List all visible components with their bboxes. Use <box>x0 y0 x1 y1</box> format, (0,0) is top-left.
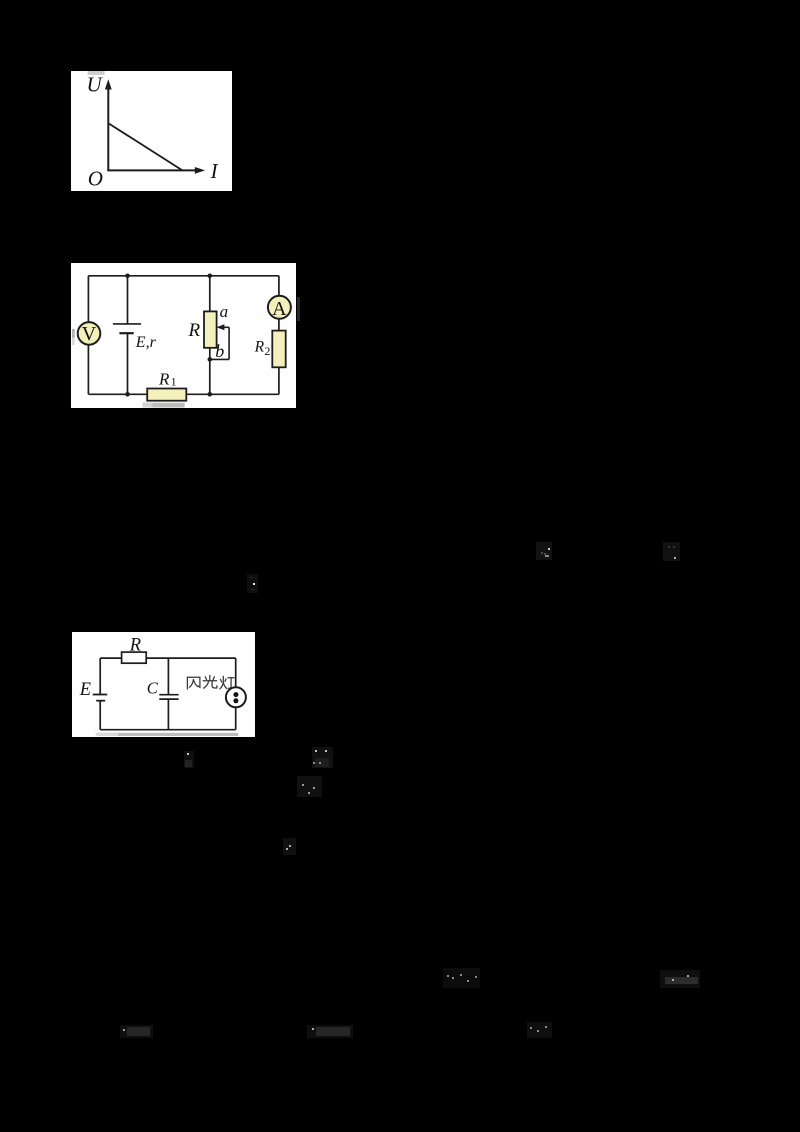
wire: rheostat branch <box>209 275 211 311</box>
node bottom-mid <box>208 392 213 397</box>
resistor R1 body <box>147 388 186 400</box>
U axis (vertical) <box>105 79 112 170</box>
flash lamp <box>226 687 246 707</box>
battery E,r <box>113 323 141 332</box>
svg-text:E,r: E,r <box>135 334 157 351</box>
wire: battery branch <box>127 275 129 323</box>
I axis (horizontal) <box>108 167 206 174</box>
rheostat wiper arrow <box>210 324 229 359</box>
scan smudge top <box>88 71 105 75</box>
svg-text:O: O <box>88 166 103 190</box>
svg-text:2: 2 <box>265 343 271 357</box>
svg-text:R: R <box>129 635 141 655</box>
capacitor C <box>159 694 178 698</box>
voltmeter V <box>78 322 101 345</box>
svg-text:b: b <box>215 341 224 361</box>
svg-text:1: 1 <box>171 374 177 388</box>
scan smudge left edge <box>72 328 75 337</box>
svg-text:C: C <box>147 678 159 697</box>
figure 1: U-I graph <box>71 71 231 191</box>
svg-text:A: A <box>272 297 287 319</box>
figure 2: measuring circuit <box>71 263 296 408</box>
svg-text:R: R <box>188 320 201 341</box>
wire: outer loop <box>89 275 280 394</box>
figure 3: flash lamp circuit <box>72 632 256 737</box>
scan smudge bottom <box>143 402 185 407</box>
svg-text:a: a <box>220 301 229 320</box>
node bottom-left <box>125 392 130 397</box>
svg-text:V: V <box>82 323 97 345</box>
resistor R body <box>121 652 146 663</box>
battery E <box>92 694 107 700</box>
svg-text:U: U <box>87 73 104 97</box>
rheostat R body <box>204 311 217 347</box>
label 闪光灯 <box>187 675 234 689</box>
scan smudge right of figure 2 <box>297 297 300 321</box>
svg-text:R: R <box>158 369 170 388</box>
wire: outer loop <box>100 658 236 730</box>
node b junction <box>208 357 213 362</box>
wire: capacitor branch <box>167 658 169 695</box>
faint residue marks on dark background <box>536 542 552 560</box>
ammeter A <box>268 295 291 319</box>
node top-mid <box>208 273 213 278</box>
svg-text:I: I <box>210 159 219 183</box>
svg-text:R: R <box>254 338 265 355</box>
svg-text:E: E <box>79 680 91 700</box>
resistor R2 body <box>273 330 286 367</box>
U-I characteristic line <box>109 123 183 170</box>
node top-left <box>125 273 130 278</box>
scan smudge bottom <box>96 733 238 736</box>
